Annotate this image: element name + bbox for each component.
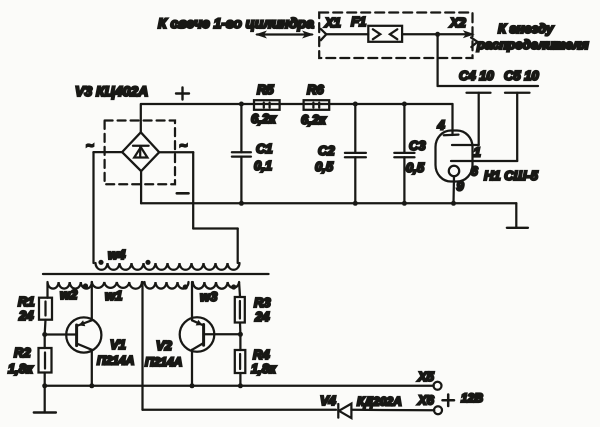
diode V4 bbox=[320, 393, 402, 418]
svg-text:распределителя: распределителя bbox=[476, 37, 589, 52]
svg-text:С3: С3 bbox=[409, 138, 426, 153]
svg-text:1,8к: 1,8к bbox=[8, 361, 34, 376]
svg-text:F1: F1 bbox=[351, 14, 366, 29]
svg-text:R3: R3 bbox=[254, 295, 271, 310]
svg-text:П214А: П214А bbox=[145, 355, 182, 369]
svg-text:С2: С2 bbox=[318, 143, 335, 158]
svg-text:Н1 СШ-5: Н1 СШ-5 bbox=[484, 168, 539, 183]
wire: double arrow to spark plug bbox=[255, 31, 314, 39]
resistor R4 bbox=[235, 334, 277, 388]
dashed enclosure (distributor unit) bbox=[319, 13, 472, 59]
svg-text:w1: w1 bbox=[105, 288, 122, 303]
wire: V2 emitter to winding bbox=[191, 282, 193, 320]
resistor R6 bbox=[301, 82, 329, 127]
svg-text:Х6: Х6 bbox=[417, 393, 435, 408]
svg-text:0,1: 0,1 bbox=[254, 158, 272, 173]
svg-text:R1: R1 bbox=[18, 294, 35, 309]
capacitor C5 bbox=[504, 68, 539, 161]
svg-text:КД202А: КД202А bbox=[357, 395, 402, 409]
capacitor C2 bbox=[315, 104, 366, 203]
rectifier bridge V3 bbox=[122, 132, 159, 171]
resistor R1 bbox=[18, 294, 52, 334]
ground (left) bbox=[34, 386, 56, 413]
label: to distributor socket bbox=[476, 21, 589, 52]
svg-text:С4 10: С4 10 bbox=[459, 68, 494, 83]
transistor V1 bbox=[42, 317, 134, 367]
wire: V2 collector to bus bbox=[190, 350, 195, 389]
svg-text:6: 6 bbox=[471, 164, 479, 179]
tube pin 4 bbox=[437, 104, 459, 135]
svg-text:П214А: П214А bbox=[97, 354, 134, 368]
wire: top bus from bridge plus to pin 4 bbox=[141, 102, 453, 107]
transistor V2 bbox=[145, 317, 243, 369]
svg-text:12В: 12В bbox=[461, 391, 483, 405]
wire: V1 collector to bus bbox=[89, 350, 94, 389]
svg-text:~: ~ bbox=[86, 138, 94, 153]
svg-text:w3: w3 bbox=[200, 289, 218, 304]
connector X2 bbox=[449, 15, 478, 47]
transformer winding w3 bbox=[193, 282, 240, 304]
svg-text:V2: V2 bbox=[156, 338, 173, 353]
wire: bridge minus lead bbox=[141, 171, 188, 203]
wire: F1 to X2 bbox=[402, 32, 467, 37]
tube pin 1 bbox=[452, 145, 481, 160]
tube pin 6 bbox=[451, 161, 517, 179]
wire: bridge AC left to w4 bbox=[86, 138, 122, 263]
svg-text:w4: w4 bbox=[108, 247, 126, 262]
transformer core bbox=[43, 273, 269, 275]
wire: bridge AC right to w4 bbox=[159, 138, 238, 263]
svg-text:С5 10: С5 10 bbox=[504, 68, 539, 83]
svg-text:~: ~ bbox=[180, 138, 188, 153]
tube H1 envelope bbox=[436, 131, 539, 184]
capacitor C3 bbox=[394, 104, 426, 203]
svg-text:0,5: 0,5 bbox=[315, 159, 334, 174]
svg-text:V1: V1 bbox=[110, 337, 126, 352]
terminal X5 bbox=[417, 369, 442, 390]
transformer winding w1 bbox=[92, 282, 189, 303]
svg-text:4: 4 bbox=[437, 118, 446, 133]
svg-text:6,2к: 6,2к bbox=[301, 112, 327, 127]
svg-text:9: 9 bbox=[457, 179, 465, 194]
label: +12V supply bbox=[443, 391, 484, 406]
svg-text:0,5: 0,5 bbox=[406, 160, 425, 175]
svg-text:1: 1 bbox=[474, 145, 481, 160]
connector X1 bbox=[321, 15, 369, 40]
svg-text:6,2к: 6,2к bbox=[251, 111, 277, 126]
resistor R2 bbox=[8, 334, 52, 386]
wire: X2 node down to C4/C5 bus bbox=[438, 34, 538, 86]
svg-text:R2: R2 bbox=[14, 345, 31, 360]
transformer winding w2 bbox=[48, 282, 92, 302]
svg-text:С1: С1 bbox=[256, 141, 273, 156]
label: to spark plug of 1st cylinder bbox=[158, 15, 314, 31]
svg-text:R4: R4 bbox=[253, 347, 270, 362]
plus sign bbox=[176, 88, 189, 100]
svg-text:24: 24 bbox=[254, 309, 270, 324]
svg-text:w2: w2 bbox=[60, 287, 78, 302]
svg-text:К гнезду: К гнезду bbox=[498, 21, 554, 36]
svg-text:R6: R6 bbox=[307, 82, 324, 97]
resistor R3 bbox=[235, 295, 272, 334]
svg-text:1,8к: 1,8к bbox=[251, 361, 277, 376]
terminal X6 bbox=[417, 393, 442, 415]
svg-text:Х5: Х5 bbox=[417, 369, 435, 384]
wire: w1 centre tap to X6 bbox=[143, 282, 435, 410]
capacitor C4 bbox=[459, 68, 494, 145]
rectifier bridge V3 label bbox=[75, 83, 148, 99]
svg-text:X2: X2 bbox=[449, 15, 467, 30]
resistor R5 bbox=[251, 82, 280, 126]
spark gap F1 bbox=[351, 14, 402, 42]
svg-text:V3 КЦ402А: V3 КЦ402А bbox=[75, 83, 148, 99]
svg-text:24: 24 bbox=[18, 308, 34, 323]
capacitor C1 bbox=[232, 104, 273, 203]
svg-text:V4: V4 bbox=[320, 393, 337, 408]
wire: collector bus to X5 bbox=[42, 383, 434, 388]
transformer winding w4 bbox=[96, 247, 240, 270]
svg-text:R5: R5 bbox=[257, 82, 274, 97]
svg-text:К свече 1-го цилиндра: К свече 1-го цилиндра bbox=[158, 15, 314, 31]
tube pin 9 cathode bbox=[449, 166, 465, 204]
wire: cathode bus bbox=[141, 201, 516, 206]
svg-text:X1: X1 bbox=[324, 15, 341, 30]
rectifier bridge V3 dashed box bbox=[105, 121, 175, 185]
wire: V1 emitter to winding bbox=[91, 282, 93, 320]
ground (right) bbox=[507, 203, 528, 228]
wire: bridge plus lead bbox=[140, 104, 142, 132]
